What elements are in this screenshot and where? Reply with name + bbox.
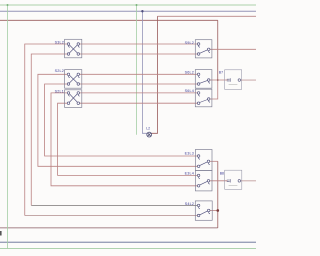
svg-text:B7: B7	[219, 71, 223, 75]
svg-text:S3L2: S3L2	[55, 41, 64, 45]
svg-text:S6L2: S6L2	[185, 71, 194, 75]
svg-text:E3L3: E3L3	[185, 151, 194, 155]
svg-text:S6L4: S6L4	[185, 89, 194, 93]
svg-text:S2L2: S2L2	[55, 69, 64, 73]
svg-text:S2L1: S2L1	[55, 90, 64, 94]
svg-text:S4L2: S4L2	[185, 202, 194, 206]
svg-text:E3L4: E3L4	[185, 171, 194, 175]
svg-text:S9L2: S9L2	[185, 41, 194, 45]
svg-text:L2: L2	[146, 127, 150, 131]
svg-text:B8: B8	[220, 171, 224, 175]
